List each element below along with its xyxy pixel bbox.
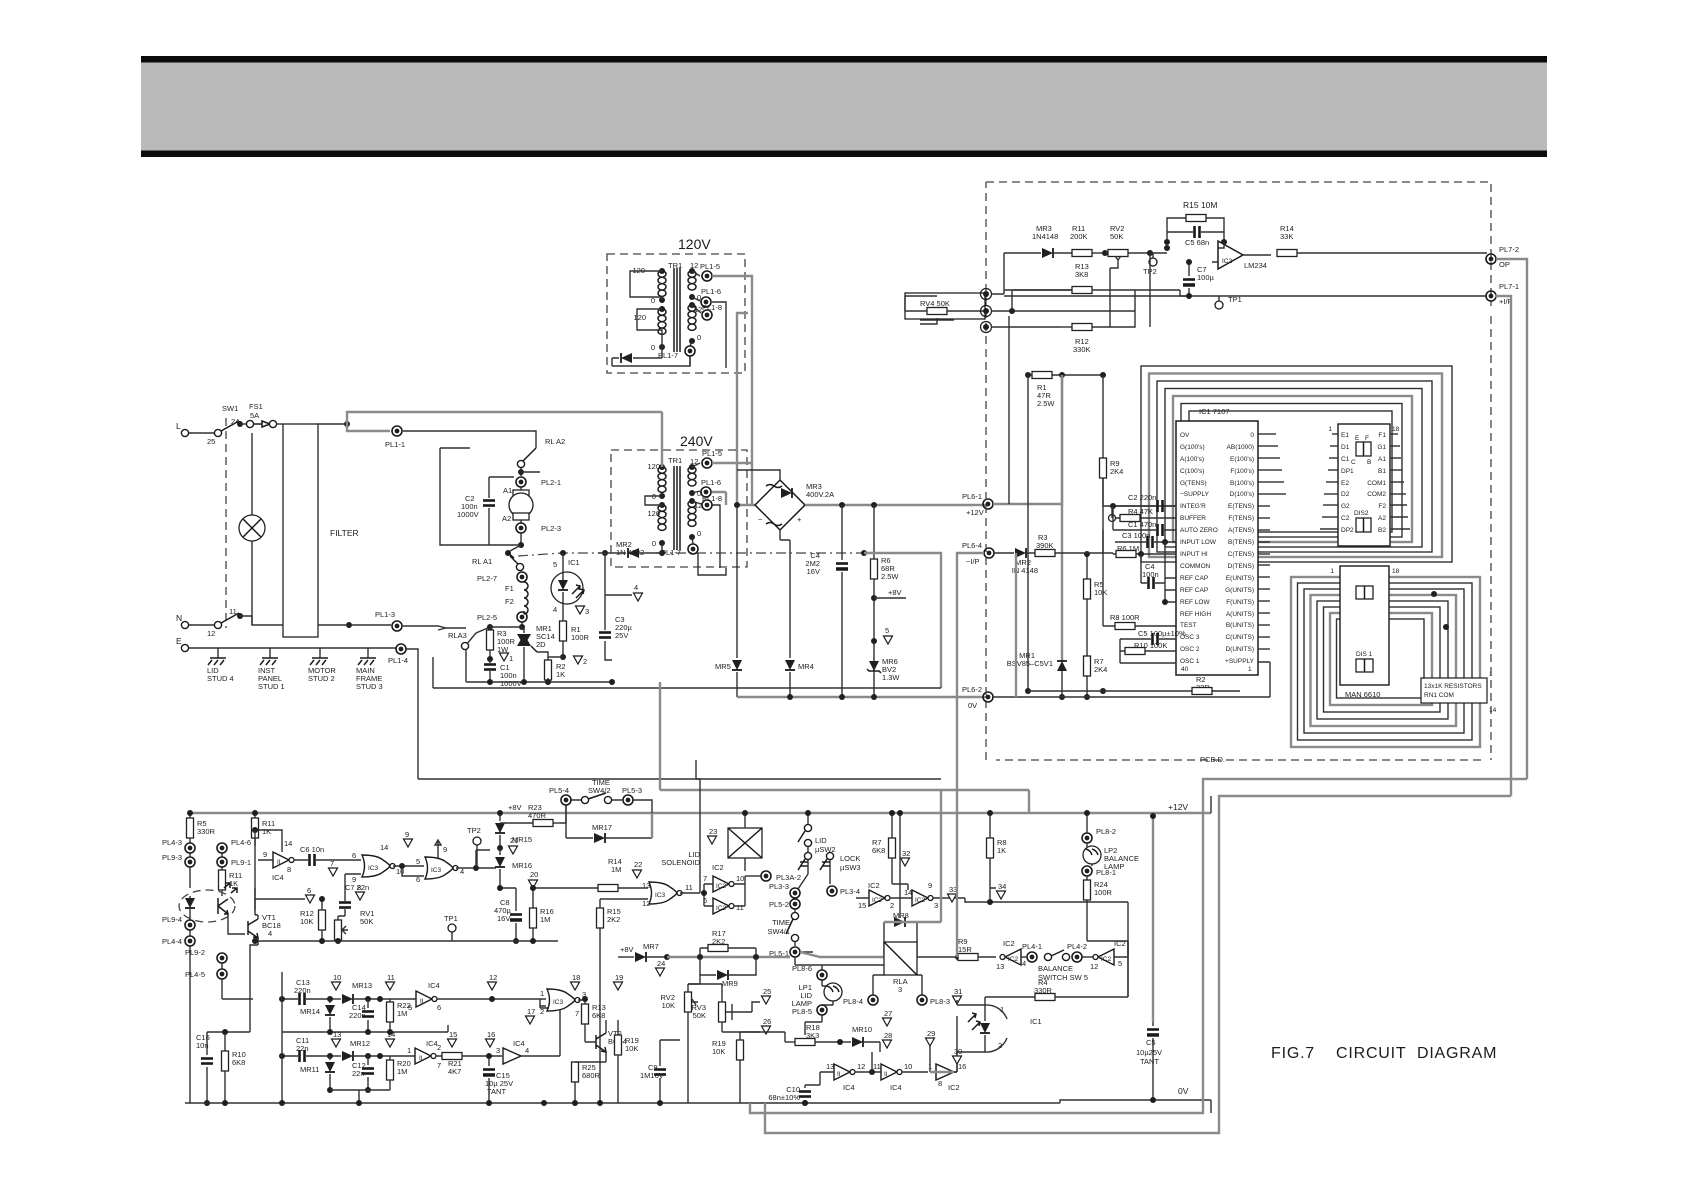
svg-text:9: 9 [928, 881, 932, 890]
svg-text:16: 16 [487, 1030, 495, 1039]
svg-text:3K8: 3K8 [1075, 270, 1088, 279]
svg-text:A(UNITS): A(UNITS) [1226, 611, 1254, 618]
svg-text:12: 12 [642, 899, 650, 908]
svg-text:390K: 390K [1036, 541, 1054, 550]
svg-text:PL5-3: PL5-3 [622, 786, 642, 795]
svg-text:PL1-6: PL1-6 [701, 287, 721, 296]
NOR IC3 b [425, 857, 458, 879]
bridge rectifier MR3 400V.2A [755, 480, 805, 530]
svg-text:220n: 220n [294, 986, 311, 995]
wire nest loop A7 [1189, 411, 1392, 532]
svg-text:PL8-4: PL8-4 [843, 997, 863, 1006]
svg-text:FIG.7 CIRCUIT DIAGRAM: FIG.7 CIRCUIT DIAGRAM [1271, 1045, 1497, 1062]
120V winding taps [659, 268, 665, 274]
connector PL8-3 [917, 995, 927, 1005]
120V dashed box [607, 254, 745, 373]
wire filter top out [318, 423, 347, 425]
node 13 [332, 1039, 341, 1047]
svg-text:7: 7 [330, 859, 334, 868]
svg-text:12: 12 [207, 629, 215, 638]
svg-text:1K: 1K [556, 670, 565, 679]
switch SW1b [214, 621, 221, 628]
node 16 [486, 1039, 495, 1047]
svg-text:32: 32 [902, 849, 910, 858]
svg-text:G2: G2 [1341, 503, 1350, 510]
svg-text:120V: 120V [678, 236, 711, 252]
svg-text:IC2: IC2 [712, 863, 724, 872]
svg-text:STUD 1: STUD 1 [258, 682, 285, 691]
svg-text:FS1: FS1 [249, 402, 263, 411]
resistor R11 1K (opto) [219, 870, 226, 890]
svg-text:100R: 100R [1094, 888, 1113, 897]
svg-text:21: 21 [510, 836, 518, 845]
node 29 [926, 1038, 935, 1046]
wire DIS2 pin stub R5 [1390, 481, 1404, 483]
svg-text:PL9-3: PL9-3 [162, 853, 182, 862]
wire nest loop B6 [1324, 607, 1441, 712]
svg-text:IC2: IC2 [915, 897, 926, 904]
switch BALANCE SW5 [1044, 953, 1051, 960]
node tri 8 [356, 892, 365, 900]
svg-text:MR10: MR10 [852, 1025, 872, 1034]
connector PL1-4 [396, 644, 406, 654]
svg-text:2: 2 [890, 901, 894, 910]
svg-text:4: 4 [1022, 959, 1026, 968]
svg-text:MR7: MR7 [643, 942, 659, 951]
svg-text:31: 31 [954, 987, 962, 996]
+8V tap [871, 595, 877, 601]
svg-text:RL A2: RL A2 [545, 437, 565, 446]
node tri 9 [404, 839, 413, 847]
svg-text:F: F [1365, 435, 1369, 442]
secondary out wires 240V [712, 463, 755, 505]
svg-text:14: 14 [284, 839, 292, 848]
wire DIS2 pin stub R1 [1390, 433, 1398, 435]
node 21 [497, 845, 503, 851]
svg-text:N: N [176, 613, 182, 623]
svg-text:+8V: +8V [888, 588, 902, 597]
svg-text:330R: 330R [197, 827, 216, 836]
svg-text:C(UNITS): C(UNITS) [1225, 634, 1254, 641]
svg-text:REF CAP: REF CAP [1180, 575, 1208, 582]
svg-text:PL1-7: PL1-7 [661, 548, 681, 557]
resistor R1 47R 2.5W [1028, 374, 1103, 376]
resistor R5 10K [1084, 579, 1091, 599]
terminal N [181, 621, 188, 628]
svg-text:PL9-4: PL9-4 [162, 915, 182, 924]
0V rail to PL6-2 [737, 696, 988, 698]
terminal L [181, 429, 188, 436]
svg-text:26: 26 [763, 1017, 771, 1026]
connector PL3-3 [790, 888, 800, 898]
node 11 [386, 982, 395, 990]
svg-text:PL8-5: PL8-5 [792, 1007, 812, 1016]
svg-text:PL6-2: PL6-2 [962, 685, 982, 694]
wire nest loop B4 [1311, 595, 1457, 726]
svg-text:10µ25V: 10µ25V [1136, 1048, 1162, 1057]
svg-text:COM1: COM1 [1367, 480, 1386, 487]
wire nest loop B1 [1291, 577, 1480, 747]
connector PL6-4 -I/P [984, 548, 994, 558]
svg-text:RLA3: RLA3 [448, 631, 467, 640]
wire REF LOW [1165, 590, 1176, 602]
svg-text:TP2: TP2 [467, 826, 481, 835]
wire nest loop A1 [1141, 366, 1452, 562]
resistor R20 1M [387, 1060, 394, 1080]
svg-text:25: 25 [207, 437, 215, 446]
svg-text:STUD 4: STUD 4 [207, 674, 234, 683]
node 18 [571, 982, 580, 990]
connector PL5-1 [790, 947, 800, 957]
resistor R7 2K4 [1084, 656, 1091, 676]
svg-text:14: 14 [1489, 707, 1497, 714]
motor M [513, 490, 529, 497]
terminal E [181, 644, 188, 651]
svg-text:1: 1 [407, 1046, 411, 1055]
lamp ILP [251, 433, 253, 625]
svg-text:+12V: +12V [966, 508, 984, 517]
svg-text:II: II [419, 1055, 423, 1062]
svg-text:4: 4 [634, 583, 638, 592]
svg-text:2K4: 2K4 [1094, 665, 1107, 674]
wire DIS2 pin stub L1 [1332, 433, 1338, 435]
header grey banner [141, 63, 1547, 151]
dash-dot trigger wire [518, 553, 864, 556]
NOR IC3 a [362, 855, 395, 877]
svg-text:F(UNITS): F(UNITS) [1226, 599, 1254, 606]
svg-text:5: 5 [553, 560, 557, 569]
svg-text:PL3-4: PL3-4 [840, 887, 860, 896]
svg-text:SOLENOID: SOLENOID [661, 858, 700, 867]
lid stud 4 [217, 648, 219, 658]
connector PL1-5 (240V) [692, 463, 700, 467]
wire nest loop B7 [1330, 613, 1432, 705]
node 28 [883, 1040, 892, 1048]
svg-text:G1: G1 [1377, 444, 1386, 451]
svg-text:C7 22n: C7 22n [345, 883, 369, 892]
wire DIS2 pin stub L7 [1323, 504, 1338, 506]
svg-text:B: B [1367, 459, 1371, 466]
svg-text:120: 120 [647, 509, 660, 518]
240V winding taps [659, 464, 665, 470]
wire PCB drop B [1015, 553, 1017, 697]
svg-text:10K: 10K [712, 1047, 725, 1056]
capacitor C4 2M2 16V [841, 505, 843, 697]
svg-text:L: L [176, 421, 181, 431]
svg-text:3: 3 [934, 901, 938, 910]
svg-text:5: 5 [408, 1003, 412, 1012]
svg-text:MR9: MR9 [722, 979, 738, 988]
svg-text:18: 18 [1392, 426, 1400, 433]
resistor R2 1K [545, 660, 552, 680]
connector PL4-2 [1072, 952, 1082, 962]
+8V top rail [190, 812, 1211, 814]
svg-text:II: II [884, 1071, 888, 1078]
connector PL4-5 [217, 969, 227, 979]
svg-text:C5 100µ±10%: C5 100µ±10% [1138, 629, 1186, 638]
capacitor C2 100n 1000V [488, 477, 490, 532]
svg-text:1K: 1K [262, 827, 271, 836]
connector PL9-4 [185, 920, 195, 930]
svg-text:13x1K RESISTORS: 13x1K RESISTORS [1424, 683, 1482, 690]
svg-text:1: 1 [1328, 426, 1332, 433]
wire DIS2 pin stub L2 [1330, 445, 1338, 447]
svg-text:50K: 50K [693, 1011, 706, 1020]
svg-text:F1: F1 [1378, 432, 1386, 439]
mech link dashed [225, 418, 227, 628]
svg-text:2K2: 2K2 [607, 915, 620, 924]
svg-text:MR11: MR11 [300, 1065, 319, 1074]
svg-text:LID: LID [815, 836, 827, 845]
svg-text:R15 10M: R15 10M [1183, 200, 1218, 210]
svg-text:IC2: IC2 [868, 881, 880, 890]
wire bottom right riser [1210, 796, 1212, 1113]
node 26 [762, 1026, 771, 1034]
svg-text:TR1: TR1 [668, 456, 682, 465]
svg-text:PL2-7: PL2-7 [477, 574, 497, 583]
TP2 [1152, 253, 1154, 258]
svg-text:34: 34 [998, 882, 1006, 891]
svg-text:68n±10%: 68n±10% [768, 1093, 800, 1102]
svg-text:2: 2 [540, 1007, 544, 1016]
svg-text:E: E [1355, 435, 1360, 442]
svg-text:11: 11 [685, 883, 693, 892]
svg-text:DIS2: DIS2 [1354, 510, 1369, 517]
node tri 7 [329, 868, 338, 876]
svg-text:5A: 5A [250, 411, 259, 420]
svg-text:11: 11 [736, 903, 744, 912]
svg-text:OSC 2: OSC 2 [1180, 646, 1200, 653]
zener MR6 BV2 1.3W [867, 661, 881, 673]
wire DIS2 pin stub R4 [1390, 469, 1402, 471]
resistor R8 1K [987, 838, 994, 858]
svg-text:PL4-4: PL4-4 [162, 937, 182, 946]
svg-text:+SUPPLY: +SUPPLY [1225, 658, 1255, 665]
svg-text:A1: A1 [1378, 456, 1386, 463]
svg-text:1: 1 [1489, 671, 1493, 678]
svg-text:D2: D2 [1341, 491, 1350, 498]
wire nest loop B2 [1298, 583, 1473, 740]
inverter IC2 a [713, 876, 734, 892]
svg-text:REF HIGH: REF HIGH [1180, 611, 1211, 618]
capacitor C1 100n 1000V [489, 659, 491, 682]
wire IC1 pin ext 2 [1270, 445, 1278, 447]
node 1 [500, 653, 509, 661]
svg-text:9: 9 [443, 845, 447, 854]
svg-text:4: 4 [268, 929, 272, 938]
svg-text:RN1 COM: RN1 COM [1424, 692, 1454, 699]
wire up to 120V feed [347, 412, 662, 431]
test point TP2 bottom [473, 837, 481, 845]
connector PL2-3 [516, 523, 526, 533]
svg-text:3: 3 [496, 1046, 500, 1055]
svg-text:100n: 100n [1142, 570, 1159, 579]
wire to R2 [537, 652, 563, 662]
main frame stud 3 [367, 648, 369, 658]
inverter IC4 a [273, 852, 294, 868]
svg-text:50K: 50K [360, 917, 373, 926]
wire riser from IC3c out [692, 884, 700, 893]
svg-text:MR13: MR13 [352, 981, 372, 990]
node 17 [526, 1016, 535, 1024]
optocoupler dashed [179, 890, 235, 922]
svg-text:13: 13 [826, 1062, 834, 1071]
connector PL1-3 [392, 621, 402, 631]
svg-text:B1: B1 [1378, 468, 1386, 475]
node 3 [576, 606, 585, 614]
svg-text:C2: C2 [1341, 515, 1350, 522]
connector PL3-4 [827, 886, 837, 896]
wire gap band A [418, 778, 941, 780]
svg-text:PL8-3: PL8-3 [930, 997, 950, 1006]
node 34 [997, 891, 1006, 899]
svg-text:B(UNITS): B(UNITS) [1226, 622, 1254, 629]
node 10 [332, 982, 341, 990]
wire DIS2 pin stub L4 [1328, 469, 1338, 471]
connector PL6-1 +12V [983, 499, 993, 509]
wires from edge connectors [991, 253, 1135, 327]
svg-text:22: 22 [634, 860, 642, 869]
svg-text:IC3: IC3 [553, 999, 564, 1006]
svg-text:INPUT HI: INPUT HI [1180, 551, 1208, 558]
resistor network RN1 [1421, 678, 1487, 703]
svg-text:15: 15 [858, 901, 866, 910]
connector PL8-1 [1082, 866, 1092, 876]
svg-text:12: 12 [489, 973, 497, 982]
svg-text:PL7-1: PL7-1 [1499, 282, 1519, 291]
svg-text:2K4: 2K4 [1110, 467, 1123, 476]
+12V rail from bridge [805, 504, 988, 506]
node 32 [901, 858, 910, 866]
svg-text:B2: B2 [1378, 527, 1386, 534]
svg-text:MAN 6610: MAN 6610 [1345, 690, 1380, 699]
svg-text:6: 6 [307, 886, 311, 895]
svg-text:PL3-3: PL3-3 [769, 882, 789, 891]
svg-text:IC4: IC4 [890, 1083, 902, 1092]
wire IC1 pin ext 6 [1270, 493, 1286, 495]
svg-text:F2: F2 [1378, 503, 1386, 510]
svg-text:C3 100n: C3 100n [1122, 531, 1150, 540]
svg-text:20: 20 [530, 870, 538, 879]
svg-text:9: 9 [263, 850, 267, 859]
svg-text:IC3: IC3 [368, 865, 379, 872]
svg-text:DP2: DP2 [1341, 527, 1354, 534]
wire mid join [282, 1025, 448, 1032]
svg-text:+: + [797, 515, 802, 524]
connector PL5-4 [561, 795, 571, 805]
wire from IC3c area up [696, 760, 700, 884]
wire +I/P down right side [1495, 296, 1511, 796]
svg-text:1: 1 [509, 654, 513, 663]
svg-text:COMMON: COMMON [1180, 563, 1211, 570]
svg-text:2.5W: 2.5W [1037, 399, 1055, 408]
buffer IC2 h [1000, 949, 1021, 965]
TP1 (bottom) [448, 924, 456, 932]
svg-text:E: E [176, 636, 182, 646]
svg-text:−: − [758, 515, 763, 524]
wire DIS2 pin stub L9 [1320, 528, 1338, 530]
svg-text:1N4148: 1N4148 [1032, 232, 1058, 241]
svg-text:IC4: IC4 [513, 1039, 525, 1048]
svg-text:E2: E2 [1341, 480, 1349, 487]
svg-text:MR17: MR17 [592, 823, 612, 832]
connector PL2-1 [516, 477, 526, 487]
svg-text:IC1 7107: IC1 7107 [1199, 407, 1229, 416]
svg-text:29: 29 [927, 1029, 935, 1038]
svg-text:D(TENS): D(TENS) [1228, 563, 1254, 570]
resistor R5 330R [187, 818, 194, 838]
svg-text:0: 0 [651, 343, 655, 352]
TP1 (top) [1215, 301, 1223, 309]
connector PL1-6 (120V) [692, 297, 700, 301]
svg-text:33K: 33K [1280, 232, 1293, 241]
wire IC1 pin ext 1 [1270, 433, 1276, 435]
svg-text:27: 27 [884, 1009, 892, 1018]
svg-text:PL8-2: PL8-2 [1096, 827, 1116, 836]
wire nest loop A6 [1181, 404, 1402, 538]
svg-text:50K: 50K [1110, 232, 1123, 241]
svg-text:II: II [420, 998, 424, 1005]
diode MR5 [736, 505, 738, 697]
wire nest loop A3 [1157, 381, 1432, 552]
connector PL7-2 OP [1486, 254, 1496, 264]
svg-text:12: 12 [857, 1062, 865, 1071]
op-amp U IC1 7107 [1176, 421, 1258, 675]
svg-text:4K7: 4K7 [448, 1067, 461, 1076]
svg-text:A(TENS): A(TENS) [1228, 527, 1254, 534]
svg-text:A2: A2 [1378, 515, 1386, 522]
node 12 [488, 982, 497, 990]
wire nest loop A5 [1173, 396, 1412, 542]
svg-text:A1: A1 [503, 486, 512, 495]
svg-text:C5 68n: C5 68n [1185, 238, 1209, 247]
earth rail [189, 647, 396, 649]
svg-text:PL3A-2: PL3A-2 [776, 873, 801, 882]
connector PL8-5 [817, 1005, 827, 1015]
svg-text:7: 7 [703, 874, 707, 883]
connector PL9-3 [185, 857, 195, 867]
svg-text:240V: 240V [680, 433, 713, 449]
node 19 [614, 982, 623, 990]
svg-text:0: 0 [652, 539, 656, 548]
svg-text:10: 10 [904, 1062, 912, 1071]
svg-text:SW4/2: SW4/2 [588, 786, 611, 795]
svg-text:13: 13 [333, 1030, 341, 1039]
connector PL1-7 (240V) [688, 544, 698, 554]
connector PL9-2 [217, 953, 227, 963]
svg-text:AUTO ZERO: AUTO ZERO [1180, 527, 1218, 534]
svg-text:PL4-1: PL4-1 [1022, 942, 1042, 951]
connector PL7-1 +I/P [1486, 291, 1496, 301]
wire RV2 wiper to opamp [1109, 268, 1111, 327]
wire +I/P run bottom [765, 796, 1511, 1133]
svg-text:1: 1 [540, 989, 544, 998]
svg-text:19: 19 [615, 973, 623, 982]
primary links [630, 271, 662, 347]
resistor R12 10K [319, 910, 326, 930]
svg-text:25V: 25V [615, 631, 628, 640]
inst panel stud 1 [269, 648, 271, 658]
svg-text:1: 1 [1330, 568, 1334, 575]
resistor R3 100R 1W [489, 627, 491, 659]
connector PL1-1 [392, 426, 402, 436]
svg-text:10K: 10K [300, 917, 313, 926]
svg-text:−SUPPLY: −SUPPLY [1180, 491, 1210, 498]
svg-text:PL1-5: PL1-5 [702, 449, 722, 458]
resistor R15 2K2 [597, 908, 604, 928]
connector PL1-6 (240V) [692, 491, 700, 493]
wire DIS2 pin stub R2 [1390, 445, 1400, 447]
